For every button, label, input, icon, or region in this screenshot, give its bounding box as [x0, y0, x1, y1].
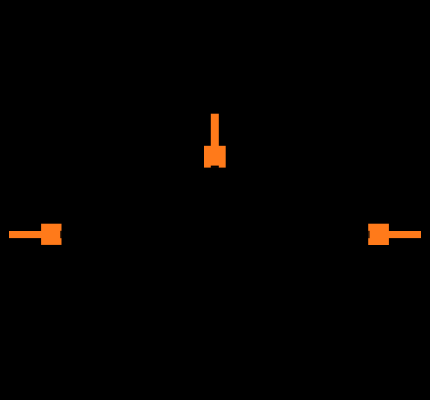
pin 1 (left) wire	[9, 231, 45, 238]
pin 3 (top) wire	[211, 114, 219, 159]
pin 1 pad	[41, 224, 61, 245]
pin 2 (right) wire	[385, 231, 421, 238]
pin 1 notch	[60, 231, 61, 238]
pin 3 notch	[211, 166, 219, 168]
pin 3 pad	[204, 146, 226, 168]
pin 2 notch	[368, 231, 369, 238]
pin 2 pad	[368, 224, 389, 245]
